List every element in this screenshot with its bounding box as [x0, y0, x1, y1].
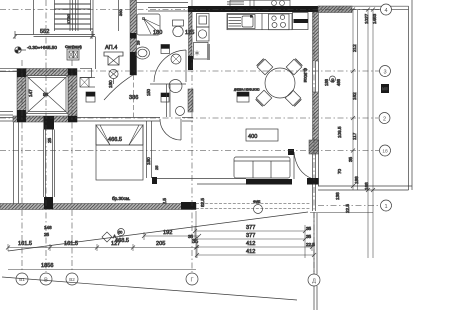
- svg-text:1856: 1856: [41, 263, 53, 269]
- washer boxes kitchen col: [194, 14, 211, 61]
- bathroom sink oval: [136, 47, 150, 59]
- diagonal lines: [8, 212, 308, 251]
- elevator shaft: [13, 69, 77, 123]
- bathroom right wall: [189, 12, 193, 56]
- kitchen counter: [227, 14, 292, 30]
- wall B bottom: [0, 197, 310, 210]
- terrace east edge: [408, 6, 410, 190]
- column box right of elevator: [80, 78, 89, 88]
- svg-text:552: 552: [40, 29, 49, 35]
- svg-text:148: 148: [44, 225, 52, 230]
- svg-text:3: 3: [383, 69, 386, 75]
- svg-text:25: 25: [47, 137, 52, 143]
- fridge block: [293, 13, 309, 30]
- svg-text:377: 377: [246, 225, 255, 231]
- shower: [137, 14, 160, 35]
- svg-text:168: 168: [364, 182, 369, 190]
- svg-text:В2: В2: [69, 277, 75, 282]
- svg-text:400: 400: [248, 134, 257, 140]
- svg-text:ФИБ: ФИБ: [253, 200, 261, 204]
- svg-text:188: 188: [354, 176, 359, 184]
- svg-text:1: 1: [384, 204, 387, 210]
- bedroom door: [160, 119, 181, 140]
- svg-text:82.5: 82.5: [200, 198, 205, 207]
- svg-text:35: 35: [306, 226, 312, 231]
- svg-text:1б: 1б: [382, 149, 388, 154]
- svg-text:25: 25: [44, 232, 50, 237]
- svg-text:466: 466: [336, 78, 341, 86]
- toilet: [173, 20, 184, 37]
- svg-text:25: 25: [154, 165, 159, 170]
- sink unit: [228, 15, 256, 29]
- svg-text:466.5: 466.5: [108, 137, 122, 143]
- axis dashed lines rows: [0, 0, 380, 273]
- section marker: [102, 232, 117, 242]
- svg-text:50: 50: [331, 79, 335, 83]
- svg-text:468.5: 468.5: [115, 238, 129, 244]
- svg-text:386: 386: [129, 95, 138, 101]
- svg-text:35: 35: [188, 234, 194, 239]
- wall A living bottom: [152, 177, 319, 185]
- bathroom left wall: [130, 0, 137, 75]
- shaft box label: [65, 44, 82, 60]
- svg-text:1453: 1453: [372, 13, 377, 24]
- WC label: [161, 93, 169, 102]
- hall step walls left: [80, 68, 92, 77]
- entry arrow symbol: [104, 52, 123, 65]
- svg-text:35: 35: [306, 234, 312, 239]
- svg-text:4: 4: [384, 8, 387, 14]
- svg-text:22.5: 22.5: [345, 204, 350, 213]
- grid circles right: [379, 4, 392, 211]
- right dim chains vertical: [353, 10, 373, 259]
- svg-text:162: 162: [352, 92, 357, 100]
- bedroom top wall: [77, 118, 193, 122]
- top wall thin left part: [148, 7, 188, 9]
- svg-text:Г: Г: [190, 278, 193, 284]
- bottom dims left: [8, 211, 199, 270]
- svg-text:29: 29: [136, 40, 141, 45]
- column circle symbol: [254, 205, 263, 214]
- grid circles bottom: [16, 273, 320, 286]
- svg-text:180: 180: [153, 30, 162, 36]
- svg-text:188: 188: [324, 78, 329, 86]
- svg-text:180: 180: [146, 157, 151, 165]
- top wall hatched part: [318, 6, 352, 13]
- stove: [269, 14, 290, 30]
- kitchen upper cabinets: [227, 0, 290, 6]
- entry knob circle: [109, 69, 118, 78]
- svg-text:377: 377: [246, 233, 255, 239]
- svg-text:70: 70: [337, 168, 342, 174]
- bed: [96, 125, 143, 180]
- svg-text:2: 2: [383, 116, 386, 122]
- svg-text:1027: 1027: [364, 13, 369, 24]
- svg-text:бр.30см.: бр.30см.: [112, 196, 130, 201]
- room label living: [234, 89, 260, 103]
- svg-text:125: 125: [185, 30, 194, 36]
- svg-text:180: 180: [108, 80, 113, 88]
- WC fixtures: [171, 54, 181, 64]
- bottom dims right: [195, 225, 314, 258]
- bathroom label: [161, 45, 170, 54]
- bedroom label box: [86, 92, 95, 102]
- svg-text:M5: M5: [382, 86, 388, 91]
- svg-text:В1: В1: [19, 277, 25, 282]
- svg-text:147: 147: [28, 89, 33, 97]
- terrace top edge: [352, 5, 409, 7]
- svg-text:212: 212: [352, 44, 357, 52]
- svg-text:Д: Д: [312, 279, 316, 285]
- svg-text:АП.4: АП.4: [105, 45, 117, 51]
- svg-text:35: 35: [348, 156, 353, 162]
- M5 label right: [381, 84, 389, 93]
- divider wall bedroom/living: [146, 121, 148, 178]
- svg-text:109.5: 109.5: [337, 126, 342, 138]
- sofa: [234, 157, 290, 178]
- terrace door: [294, 152, 313, 179]
- svg-text:Сиг(вкл): Сиг(вкл): [65, 44, 82, 49]
- top wall black: [188, 6, 318, 12]
- level mark: [15, 45, 58, 53]
- staircase: [34, 0, 124, 69]
- east wall: [309, 12, 319, 211]
- dim ticks: [6, 8, 375, 258]
- svg-text:50: 50: [118, 231, 122, 235]
- svg-text:ДНЕВНА С КУХН. БОКС: ДНЕВНА С КУХН. БОКС: [234, 89, 260, 92]
- svg-text:-0.30=+645.50: -0.30=+645.50: [27, 45, 57, 50]
- svg-text:150: 150: [146, 88, 151, 96]
- svg-text:138: 138: [335, 192, 340, 200]
- svg-text:17/30: 17/30: [66, 13, 71, 24]
- dining table: [255, 58, 308, 106]
- terrace bottom: [318, 185, 412, 187]
- svg-text:205: 205: [156, 241, 165, 247]
- sideboard 400: [246, 129, 278, 141]
- svg-text:161.5: 161.5: [18, 241, 32, 247]
- svg-text:412: 412: [246, 249, 255, 255]
- WC left wall: [166, 84, 168, 117]
- bathroom door: [154, 50, 186, 82]
- svg-text:117: 117: [352, 132, 357, 140]
- entry door swing: [104, 75, 133, 100]
- stair bottom wall: [15, 34, 95, 36]
- shaft below elevator: [44, 116, 55, 208]
- svg-text:412: 412: [246, 241, 255, 247]
- left edge wall bits: [0, 68, 17, 70]
- svg-text:ф.90см: ф.90см: [303, 68, 308, 82]
